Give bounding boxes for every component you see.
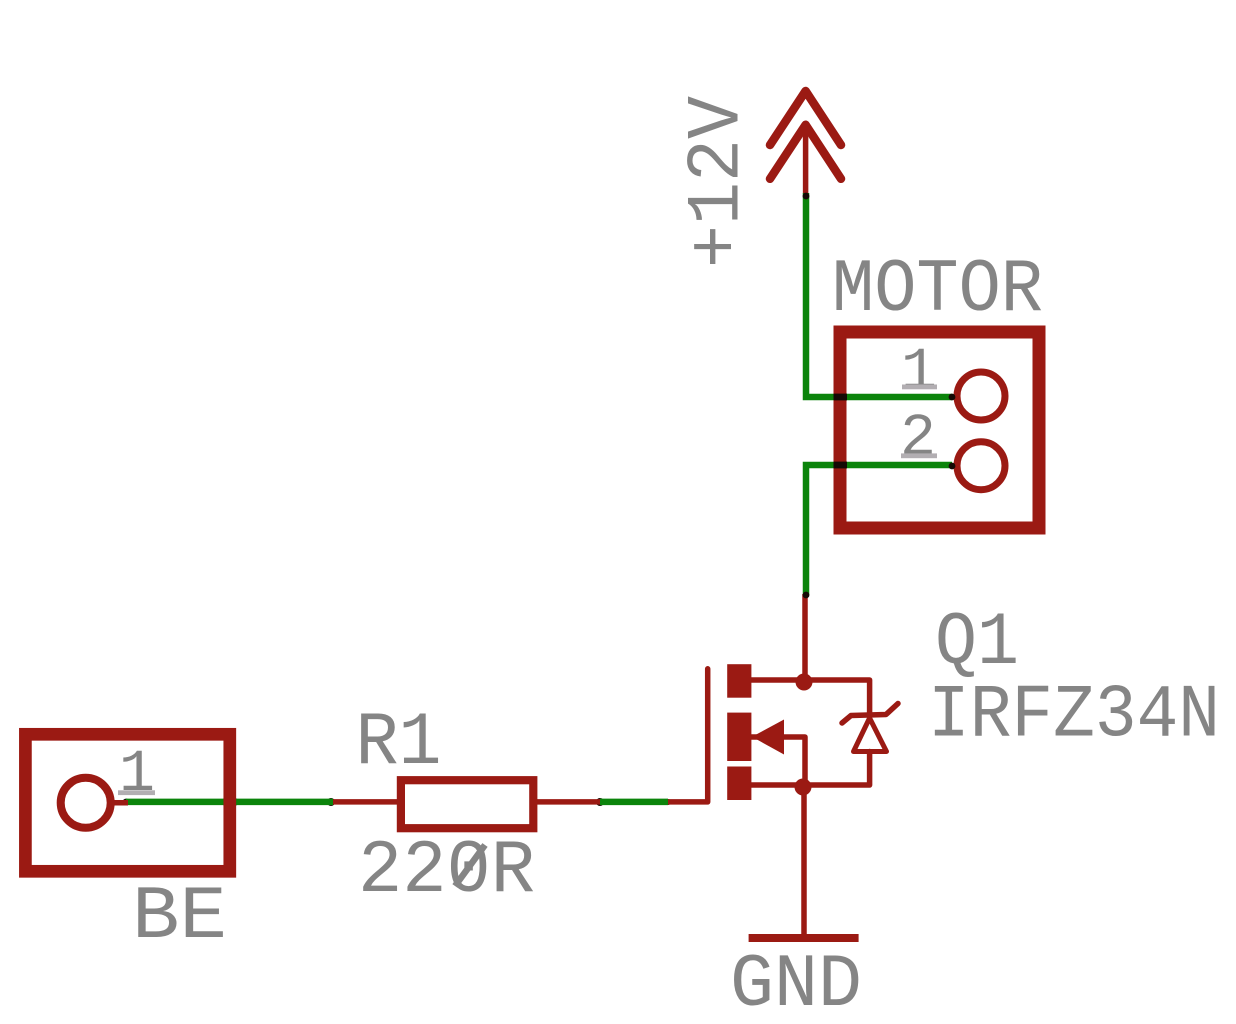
MOTOR pin 2 circle [957,442,1005,490]
resistor R1 body [401,780,533,828]
node: wire N$2 at MOTOR pin 2 [949,463,956,470]
supply symbol +12V arrow [770,91,841,193]
wire net N$4: R1 to gate [600,799,668,806]
resistor R1 pin 1 lead [331,799,400,805]
Q1 body arrow head [752,720,784,755]
svg-text:GND: GND [730,943,862,1024]
svg-text:R1: R1 [356,701,442,786]
wire: Q1 drain lead [802,594,808,682]
svg-text:BE: BE [132,875,227,960]
connector BE pin circle [61,778,111,828]
wire net N$2: MOTOR pin 2 to drain [806,465,952,595]
node: wire N$3 crossing BE box border [223,799,237,806]
node: net N$3 at R1 pin 1 [327,798,335,806]
svg-text:220R: 220R [358,829,535,914]
Q1 body connection [751,737,805,785]
node: +12V stem to net N$1 [803,193,810,200]
Q1 body channel bar [727,713,751,761]
transistor Q1 [668,669,898,802]
Q1 body-diode zener cathode [842,704,898,724]
svg-text:+12V: +12V [676,96,761,268]
svg-text:MOTOR: MOTOR [832,248,1043,333]
Q1 source channel bar [727,767,751,801]
svg-text:1: 1 [119,742,155,809]
svg-text:1: 1 [901,340,937,407]
resistor R1 pin 2 lead [534,799,601,805]
node: wire N$2 crossing MOTOR box border [834,462,848,469]
node: wire N$2 to drain lead [803,592,810,599]
Q1 gate lead [668,669,708,802]
Q1 drain line [751,680,870,716]
node: wire N$1 at MOTOR pin 1 [949,394,956,401]
wire: Q1 source to ground [801,787,807,938]
slash of zero in 220R [455,845,485,886]
node: net N$4 at Q1 gate lead [665,799,671,805]
connector BE box [25,734,229,871]
junction: source node [795,779,812,796]
Q1 body-diode zener triangle [854,718,887,752]
Q1 source line [751,752,870,786]
connector BE pin stub [110,800,128,806]
node: wire N$1 crossing MOTOR box border [834,394,848,401]
junction: drain node [796,674,813,691]
MOTOR pin 1 circle [957,372,1005,420]
node: net N$4 at R1 pin 2 [596,798,604,806]
Q1 drain channel bar [727,664,751,698]
node: net N$3 at BE pin 1 [123,799,130,806]
wire net N$3: BE pin to R1 [126,799,333,806]
connector MOTOR box [840,332,1039,528]
wire net N$1: +12V to MOTOR pin 1 [806,193,952,397]
svg-text:2: 2 [900,406,936,473]
svg-text:IRFZ34N: IRFZ34N [928,674,1220,759]
ground symbol bar [749,934,859,942]
